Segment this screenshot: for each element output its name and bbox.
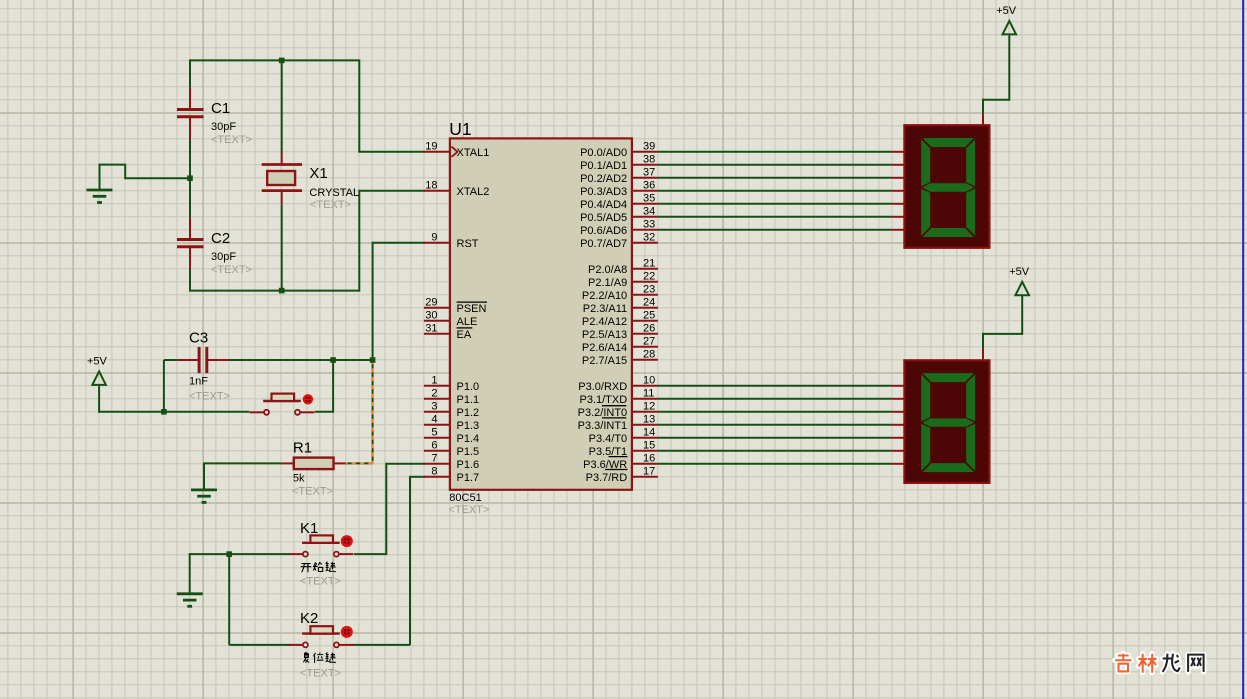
svg-text:1: 1 bbox=[431, 375, 437, 387]
svg-text:28: 28 bbox=[643, 349, 655, 361]
svg-text:P0.6/AD6: P0.6/AD6 bbox=[580, 225, 627, 237]
svg-text:P3.2/INT0: P3.2/INT0 bbox=[578, 407, 628, 419]
svg-text:P2.4/A12: P2.4/A12 bbox=[582, 316, 627, 328]
svg-text:R1: R1 bbox=[293, 439, 312, 456]
svg-text:29: 29 bbox=[425, 297, 437, 309]
svg-text:25: 25 bbox=[643, 310, 655, 322]
svg-text:P1.2: P1.2 bbox=[457, 407, 480, 419]
svg-text:P0.0/AD0: P0.0/AD0 bbox=[580, 147, 627, 159]
svg-text:P2.6/A14: P2.6/A14 bbox=[582, 342, 627, 354]
svg-text:80C51: 80C51 bbox=[449, 492, 481, 504]
svg-text:5k: 5k bbox=[293, 472, 305, 484]
svg-text:3: 3 bbox=[431, 401, 437, 413]
svg-text:CRYSTAL: CRYSTAL bbox=[309, 187, 359, 199]
svg-text:34: 34 bbox=[643, 206, 655, 218]
svg-text:+5V: +5V bbox=[87, 356, 108, 368]
svg-text:7: 7 bbox=[431, 453, 437, 465]
svg-text:P3.4/T0: P3.4/T0 bbox=[589, 433, 628, 445]
svg-text:<TEXT>: <TEXT> bbox=[292, 485, 333, 497]
svg-text:P1.0: P1.0 bbox=[457, 381, 480, 393]
svg-text:<TEXT>: <TEXT> bbox=[310, 199, 351, 211]
svg-text:1nF: 1nF bbox=[189, 375, 208, 387]
svg-text:35: 35 bbox=[643, 193, 655, 205]
svg-text:15: 15 bbox=[643, 440, 655, 452]
svg-text:30pF: 30pF bbox=[211, 121, 236, 133]
svg-text:P3.3/INT1: P3.3/INT1 bbox=[578, 420, 628, 432]
svg-text:C1: C1 bbox=[211, 100, 230, 117]
svg-text:P2.7/A15: P2.7/A15 bbox=[582, 355, 627, 367]
svg-text:31: 31 bbox=[425, 323, 437, 335]
svg-text:<TEXT>: <TEXT> bbox=[448, 504, 489, 516]
svg-text:P0.5/AD5: P0.5/AD5 bbox=[580, 212, 627, 224]
svg-text:K1: K1 bbox=[300, 520, 318, 537]
svg-text:30pF: 30pF bbox=[211, 251, 236, 263]
svg-text:P2.2/A10: P2.2/A10 bbox=[582, 290, 627, 302]
svg-text:10: 10 bbox=[643, 375, 655, 387]
svg-text:+5V: +5V bbox=[996, 5, 1017, 17]
svg-text:9: 9 bbox=[431, 232, 437, 244]
svg-text:32: 32 bbox=[643, 232, 655, 244]
svg-text:P0.1/AD1: P0.1/AD1 bbox=[580, 160, 627, 172]
svg-text:16: 16 bbox=[643, 453, 655, 465]
svg-text:U1: U1 bbox=[449, 119, 471, 139]
svg-text:X1: X1 bbox=[309, 165, 327, 182]
svg-text:19: 19 bbox=[425, 141, 437, 153]
svg-text:4: 4 bbox=[431, 414, 437, 426]
svg-text:P1.6: P1.6 bbox=[457, 459, 480, 471]
svg-text:39: 39 bbox=[643, 141, 655, 153]
svg-text:ALE: ALE bbox=[457, 316, 478, 328]
svg-text:C3: C3 bbox=[189, 329, 208, 346]
svg-text:27: 27 bbox=[643, 336, 655, 348]
svg-text:12: 12 bbox=[643, 401, 655, 413]
svg-text:<TEXT>: <TEXT> bbox=[211, 134, 252, 146]
svg-text:5: 5 bbox=[431, 427, 437, 439]
svg-text:P3.1/TXD: P3.1/TXD bbox=[580, 394, 628, 406]
svg-text:P0.2/AD2: P0.2/AD2 bbox=[580, 173, 627, 185]
svg-text:P1.7: P1.7 bbox=[457, 472, 480, 484]
svg-text:P0.7/AD7: P0.7/AD7 bbox=[580, 238, 627, 250]
svg-text:13: 13 bbox=[643, 414, 655, 426]
svg-text:26: 26 bbox=[643, 323, 655, 335]
svg-text:P3.7/RD: P3.7/RD bbox=[586, 472, 628, 484]
svg-text:C2: C2 bbox=[211, 230, 230, 247]
svg-text:<TEXT>: <TEXT> bbox=[300, 575, 341, 587]
svg-text:P1.4: P1.4 bbox=[457, 433, 480, 445]
svg-text:23: 23 bbox=[643, 284, 655, 296]
svg-text:P1.5: P1.5 bbox=[457, 446, 480, 458]
svg-text:P2.5/A13: P2.5/A13 bbox=[582, 329, 627, 341]
svg-text:EA: EA bbox=[457, 329, 472, 341]
svg-text:<TEXT>: <TEXT> bbox=[300, 667, 341, 679]
svg-text:37: 37 bbox=[643, 167, 655, 179]
svg-text:6: 6 bbox=[431, 440, 437, 452]
svg-text:22: 22 bbox=[643, 271, 655, 283]
svg-text:2: 2 bbox=[431, 388, 437, 400]
svg-text:36: 36 bbox=[643, 180, 655, 192]
svg-text:<TEXT>: <TEXT> bbox=[189, 390, 230, 402]
svg-text:17: 17 bbox=[643, 466, 655, 478]
svg-text:RST: RST bbox=[457, 238, 479, 250]
svg-text:11: 11 bbox=[643, 388, 654, 400]
svg-text:P2.3/A11: P2.3/A11 bbox=[583, 303, 627, 315]
svg-text:K2: K2 bbox=[300, 610, 318, 627]
svg-text:24: 24 bbox=[643, 297, 655, 309]
svg-text:30: 30 bbox=[425, 310, 437, 322]
svg-text:P1.3: P1.3 bbox=[457, 420, 480, 432]
svg-text:+5V: +5V bbox=[1009, 266, 1030, 278]
svg-text:33: 33 bbox=[643, 219, 655, 231]
svg-text:XTAL2: XTAL2 bbox=[457, 186, 490, 198]
svg-text:21: 21 bbox=[643, 258, 655, 270]
svg-text:14: 14 bbox=[643, 427, 655, 439]
svg-text:PSEN: PSEN bbox=[457, 303, 487, 315]
svg-text:8: 8 bbox=[431, 466, 437, 478]
svg-text:38: 38 bbox=[643, 154, 655, 166]
svg-text:P2.1/A9: P2.1/A9 bbox=[588, 277, 627, 289]
svg-text:P0.4/AD4: P0.4/AD4 bbox=[580, 199, 627, 211]
svg-text:P2.0/A8: P2.0/A8 bbox=[588, 264, 627, 276]
svg-text:18: 18 bbox=[425, 180, 437, 192]
svg-text:P0.3/AD3: P0.3/AD3 bbox=[580, 186, 627, 198]
svg-text:P3.0/RXD: P3.0/RXD bbox=[578, 381, 627, 393]
svg-text:P1.1: P1.1 bbox=[457, 394, 480, 406]
svg-text:<TEXT>: <TEXT> bbox=[211, 264, 252, 276]
svg-text:XTAL1: XTAL1 bbox=[457, 147, 490, 159]
